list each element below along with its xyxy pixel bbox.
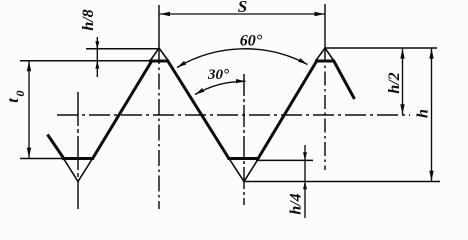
node h/2 dimension line [400, 48, 404, 114]
wire: ascending flank valley2 to peak2 (thick) [258, 61, 318, 160]
svg-text:h: h [415, 109, 432, 118]
node 30deg angle arc with arrows [195, 79, 246, 95]
node S: pitch dimension line with outward arrows [160, 12, 325, 16]
node h/8: small dimension, outside arrows [95, 37, 99, 77]
svg-text:t: t [5, 98, 22, 103]
wire: left root flat (thick) [62, 157, 94, 160]
wire: peak1 crest flat (thick) [149, 60, 169, 63]
node pitch axis: horizontal dash-dot centerline [57, 114, 410, 116]
node centerline valley2 (dash-dot) [243, 74, 245, 205]
wire: root sharp level reference line [244, 181, 440, 183]
wire: descending flank peak1 to valley2 (thick) [168, 61, 230, 160]
node peak1 sharp apex (thin theoretical crest) [150, 48, 169, 61]
svg-text:S: S [238, 0, 247, 16]
wire: S extension line above left crest apex [158, 5, 160, 48]
wire: S extension line above right crest apex [324, 4, 326, 48]
wire: left crest level reference line [20, 60, 150, 62]
wire: middle root flat extension line right [256, 159, 313, 161]
wire: peak2 crest flat (thick) [315, 60, 335, 63]
svg-text:h/2: h/2 [386, 72, 403, 93]
svg-text:60°: 60° [240, 33, 263, 50]
svg-text:h/4: h/4 [288, 193, 305, 214]
wire: left apex level reference line [86, 48, 159, 50]
svg-text:30°: 30° [207, 67, 229, 83]
wire: left root flat extension line [20, 158, 64, 160]
wire: ascending flank valley1 to peak1 (thick) [92, 61, 152, 160]
node left root sharp V (thin theoretical root) [64, 159, 93, 182]
node t0: thread depth dimension line [27, 61, 31, 158]
node centerline valley1 (dash-dot) [77, 92, 79, 209]
node centerline peak1 (dash-dot) [158, 48, 160, 209]
wire: right apex level reference line [325, 47, 437, 49]
svg-text:0: 0 [13, 91, 27, 97]
node peak2 sharp apex (thin theoretical crest) [316, 48, 335, 61]
wire: middle root flat (thick) [228, 157, 259, 160]
node 60deg angle arc with arrows [177, 49, 308, 68]
node h/4: small dimension, outside arrows [303, 145, 307, 218]
node centerline peak2 (dash-dot) [324, 48, 326, 170]
node middle root sharp V (thin theoretical root) [229, 159, 259, 182]
node h dimension line [429, 48, 433, 181]
wire: left outer partial flank (thick) [48, 135, 65, 160]
svg-text:h/8: h/8 [80, 9, 97, 30]
wire: right outer partial flank (thick) [334, 61, 355, 100]
